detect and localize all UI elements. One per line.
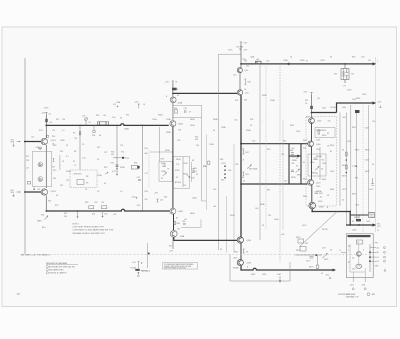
svg-text:+75: +75 bbox=[343, 86, 346, 88]
svg-text:0.1: 0.1 bbox=[62, 130, 65, 132]
svg-text:Q468: Q468 bbox=[247, 263, 251, 265]
svg-text:R15: R15 bbox=[60, 151, 63, 153]
svg-text:L51: L51 bbox=[317, 98, 320, 100]
svg-text:SEE PARTS LIST FOR SEMICO: SEE PARTS LIST FOR SEMICO bbox=[21, 253, 50, 256]
svg-text:R31: R31 bbox=[126, 115, 129, 117]
svg-text:R45: R45 bbox=[248, 82, 251, 84]
svg-text:C454: C454 bbox=[316, 140, 320, 142]
wire x173 top bbox=[172, 83, 174, 97]
wire x142.5 bbox=[142, 125, 144, 211]
svg-text:R34: R34 bbox=[111, 163, 114, 165]
svg-text:2: 2 bbox=[377, 61, 378, 63]
svg-text:R479: R479 bbox=[309, 267, 313, 269]
svg-text:R486: R486 bbox=[354, 217, 358, 219]
resistor R478 diagonal bbox=[322, 254, 328, 258]
svg-text:C30: C30 bbox=[112, 117, 115, 119]
svg-text:+SIG: +SIG bbox=[193, 168, 198, 170]
svg-text:150: 150 bbox=[268, 215, 271, 217]
svg-text:R464: R464 bbox=[303, 179, 307, 181]
svg-text:Q452: Q452 bbox=[317, 121, 321, 123]
svg-text:18: 18 bbox=[175, 82, 177, 84]
box outline bbox=[346, 234, 373, 278]
svg-text:R32: R32 bbox=[175, 89, 178, 91]
svg-text:C36: C36 bbox=[184, 108, 187, 110]
svg-text:J1: J1 bbox=[339, 250, 341, 252]
ground 2 bottom bus bbox=[102, 211, 104, 216]
svg-text:L24: L24 bbox=[101, 202, 104, 204]
svg-text:C67: C67 bbox=[284, 181, 287, 183]
wire input1 arrow bbox=[17, 141, 20, 143]
svg-text:R46: R46 bbox=[177, 223, 180, 225]
svg-text:R25: R25 bbox=[64, 213, 67, 215]
svg-text:C472: C472 bbox=[369, 189, 373, 191]
svg-text:C32: C32 bbox=[120, 145, 123, 147]
svg-text:316: 316 bbox=[244, 100, 247, 102]
svg-text:R457: R457 bbox=[303, 140, 307, 142]
transistor Q33 bbox=[170, 121, 176, 127]
svg-text:62: 62 bbox=[330, 57, 332, 59]
svg-text:C55: C55 bbox=[234, 120, 237, 122]
wire x311.5 between Q470 Q480 bbox=[311, 185, 313, 202]
svg-text:R490: R490 bbox=[365, 150, 369, 152]
svg-text:Q480: Q480 bbox=[319, 207, 323, 209]
resistor R36 bbox=[131, 165, 138, 169]
resistor R80 bbox=[79, 132, 81, 136]
circled numbers bbox=[46, 266, 48, 268]
svg-text:Q466: Q466 bbox=[247, 240, 251, 242]
ground right of box bbox=[384, 269, 386, 272]
thick wire y112.5 bbox=[312, 112, 337, 114]
wire input2 thick bbox=[24, 191, 42, 193]
svg-text:R36: R36 bbox=[174, 108, 177, 110]
svg-text:HIGH AMPLIFIER: HIGH AMPLIFIER bbox=[49, 268, 64, 271]
wire x234 bbox=[233, 144, 235, 253]
svg-text:R54: R54 bbox=[235, 100, 238, 102]
svg-text:620: 620 bbox=[244, 61, 247, 63]
svg-text:C7: C7 bbox=[74, 165, 76, 167]
box bottom enclosure bbox=[230, 254, 290, 281]
diode chain CR37 bbox=[224, 166, 226, 179]
wire from Q46 to Q466 bbox=[174, 237, 237, 240]
wire stub x345 bbox=[344, 64, 346, 69]
svg-text:47: 47 bbox=[189, 112, 191, 114]
svg-text:C469A: C469A bbox=[316, 190, 322, 193]
wire y255 bbox=[295, 254, 322, 256]
svg-text:820: 820 bbox=[92, 214, 95, 216]
potentiometer R461 bbox=[315, 167, 319, 170]
svg-text:-SIG: -SIG bbox=[362, 285, 366, 287]
svg-text:L40: L40 bbox=[213, 206, 216, 208]
wire x117 bbox=[116, 125, 118, 174]
svg-text:R471: R471 bbox=[319, 193, 323, 195]
svg-text:R453: R453 bbox=[322, 130, 326, 132]
wire x351 bbox=[350, 105, 352, 211]
svg-text:910: 910 bbox=[121, 152, 124, 154]
svg-text:R29: R29 bbox=[104, 167, 107, 169]
svg-text:R51: R51 bbox=[305, 100, 308, 102]
svg-text:316: 316 bbox=[303, 148, 306, 150]
svg-text:R469: R469 bbox=[303, 196, 307, 198]
svg-text:62: 62 bbox=[352, 221, 354, 223]
svg-text:+TRIG SIG: +TRIG SIG bbox=[73, 174, 83, 176]
svg-text:C13: C13 bbox=[31, 137, 34, 139]
svg-text:C26: C26 bbox=[94, 202, 97, 204]
svg-text:C51: C51 bbox=[306, 117, 309, 119]
svg-text:.001: .001 bbox=[104, 214, 108, 216]
svg-text:B1: B1 bbox=[377, 257, 379, 259]
svg-text:C49: C49 bbox=[213, 189, 216, 191]
resistor R30 on bus bbox=[98, 122, 109, 125]
svg-text:7A2: 7A2 bbox=[372, 293, 375, 296]
wire x80 bbox=[79, 125, 81, 170]
wire loop right x289 bbox=[288, 144, 290, 184]
svg-text:Q30A: Q30A bbox=[124, 128, 129, 131]
svg-text:DELAY: DELAY bbox=[131, 266, 138, 269]
svg-text:R478: R478 bbox=[324, 259, 328, 261]
svg-text:Q24 B: Q24 B bbox=[51, 191, 57, 193]
svg-text:C45 R45: C45 R45 bbox=[236, 47, 243, 49]
svg-text:R455: R455 bbox=[330, 145, 334, 147]
svg-text:ATTEN: ATTEN bbox=[175, 181, 181, 184]
svg-text:16: 16 bbox=[290, 57, 292, 59]
title bar dark text bbox=[348, 235, 371, 237]
svg-text:C17: C17 bbox=[26, 168, 29, 170]
transistor Q468 bbox=[237, 260, 243, 266]
svg-text:C38: C38 bbox=[235, 164, 238, 166]
wire x283 bbox=[282, 120, 284, 230]
junction arrow on bus bbox=[286, 62, 289, 65]
svg-text:R14: R14 bbox=[52, 136, 55, 138]
wire diagonal pointer bbox=[300, 211, 339, 247]
dual diode CR18 bbox=[38, 162, 43, 167]
wire x311.5 between Q458 Q470 bbox=[311, 147, 313, 180]
wire stub below bbox=[344, 80, 346, 84]
svg-text:J44: J44 bbox=[246, 66, 249, 68]
svg-text:820: 820 bbox=[355, 178, 358, 180]
svg-text:Q43B: Q43B bbox=[178, 211, 183, 213]
wire top bus bbox=[241, 63, 374, 65]
svg-text:Q1: Q1 bbox=[352, 258, 354, 260]
svg-text:C5: C5 bbox=[82, 144, 84, 146]
wire input2 arrow bbox=[17, 191, 20, 193]
wire bus y93.4 bbox=[173, 92, 237, 94]
dashed box delay pickoff bbox=[70, 170, 97, 188]
pin row 1 bbox=[370, 248, 376, 262]
svg-text:R57: R57 bbox=[334, 74, 337, 76]
svg-text:R63 GAIN: R63 GAIN bbox=[249, 168, 258, 171]
svg-text:165: 165 bbox=[368, 60, 371, 62]
svg-text:+: + bbox=[262, 121, 263, 123]
svg-text:.5-2: .5-2 bbox=[88, 122, 91, 124]
transistor Q466 bbox=[237, 237, 243, 243]
wire x218.5 lower bbox=[218, 163, 220, 250]
svg-text:C450: C450 bbox=[342, 117, 346, 119]
svg-text:750: 750 bbox=[74, 138, 77, 140]
svg-text:C452: C452 bbox=[347, 141, 351, 143]
svg-text:R468A: R468A bbox=[233, 267, 239, 270]
ground input1 bbox=[12, 144, 14, 147]
svg-text:4.7: 4.7 bbox=[66, 156, 69, 158]
svg-text:620: 620 bbox=[53, 178, 56, 180]
resistor R467 bbox=[243, 249, 245, 253]
svg-text:NOTE 1: NOTE 1 bbox=[73, 224, 80, 226]
svg-text:R489: R489 bbox=[356, 98, 360, 100]
nested box lines x201.6 bbox=[202, 118, 207, 201]
wire output top y210.5 bbox=[312, 209, 373, 225]
svg-text:R37: R37 bbox=[145, 148, 148, 150]
svg-text:68: 68 bbox=[99, 135, 101, 137]
svg-text:62: 62 bbox=[330, 151, 332, 153]
svg-text:Q458: Q458 bbox=[316, 144, 320, 146]
transistor Q480 bbox=[309, 202, 316, 209]
svg-text:R460A: R460A bbox=[316, 155, 322, 158]
inner box R460 network bbox=[308, 154, 326, 176]
svg-text:ADJ: ADJ bbox=[42, 226, 45, 229]
capacitor C15 bbox=[47, 135, 49, 137]
svg-text:C461: C461 bbox=[322, 163, 326, 165]
capacitor C36a bbox=[185, 110, 187, 113]
wire x159.4 bbox=[158, 127, 160, 161]
inner wires waveform box bbox=[350, 244, 365, 278]
svg-text:R9: R9 bbox=[86, 183, 88, 185]
capacitor C14 bbox=[38, 147, 42, 148]
svg-text:75: 75 bbox=[377, 230, 379, 232]
svg-text:R39: R39 bbox=[145, 191, 148, 193]
bracket wires loop left bbox=[242, 149, 244, 178]
svg-text:R64: R64 bbox=[246, 174, 249, 176]
resistor R479 bbox=[316, 265, 319, 269]
svg-text:GAIN: GAIN bbox=[37, 220, 42, 223]
wire input1 thick bbox=[24, 141, 42, 143]
svg-text:R476: R476 bbox=[296, 250, 300, 252]
svg-text:62: 62 bbox=[316, 173, 318, 175]
wire x260 bbox=[259, 64, 261, 240]
svg-text:R467: R467 bbox=[234, 252, 238, 254]
svg-text:5-25: 5-25 bbox=[112, 171, 116, 173]
transistor Q14 bbox=[41, 138, 47, 144]
svg-text:R27: R27 bbox=[97, 147, 100, 149]
pin circles bottom bbox=[352, 288, 354, 290]
resistor R19 bbox=[53, 159, 55, 162]
svg-text:C482: C482 bbox=[262, 274, 266, 276]
inductor L28 below bus bbox=[93, 125, 95, 130]
arrowhead bottom bus bbox=[333, 269, 336, 272]
svg-text:R30: R30 bbox=[96, 115, 99, 117]
svg-text:910: 910 bbox=[196, 145, 199, 147]
svg-text:R452: R452 bbox=[355, 150, 359, 152]
wire x147 stub bbox=[147, 243, 149, 268]
svg-text:J451: J451 bbox=[365, 128, 369, 130]
svg-text:C18: C18 bbox=[26, 160, 29, 162]
resistor R56 on bus bbox=[256, 61, 262, 64]
svg-text:56: 56 bbox=[330, 250, 332, 252]
emitter coupling box bbox=[32, 152, 52, 187]
svg-text:R12: R12 bbox=[56, 119, 59, 121]
resistor R460 bbox=[314, 158, 318, 160]
svg-text:R475: R475 bbox=[296, 237, 300, 239]
svg-text:GND: GND bbox=[375, 266, 380, 268]
svg-text:C47: C47 bbox=[177, 229, 180, 231]
svg-text:CR37: CR37 bbox=[221, 163, 226, 165]
svg-text:120: 120 bbox=[372, 121, 375, 123]
wire bottom bus y270 bbox=[241, 266, 334, 270]
junction y156 bbox=[297, 155, 299, 157]
potentiometer R63 bbox=[247, 165, 252, 168]
svg-text:R5: R5 bbox=[73, 133, 75, 135]
svg-text:825: 825 bbox=[305, 243, 308, 245]
ground bottom bbox=[279, 276, 281, 282]
svg-text:R60: R60 bbox=[267, 149, 270, 151]
svg-text:62: 62 bbox=[327, 133, 329, 135]
svg-text:R36: R36 bbox=[134, 163, 137, 165]
resistor R472 bbox=[345, 152, 347, 156]
dual diode CR19 bbox=[38, 177, 43, 182]
svg-text:62: 62 bbox=[320, 197, 322, 199]
svg-text:C41: C41 bbox=[183, 185, 186, 187]
resistor R62 bbox=[243, 150, 245, 154]
wire stub y156 bbox=[289, 155, 301, 157]
svg-text:L30: L30 bbox=[103, 115, 106, 117]
svg-text:910: 910 bbox=[145, 199, 148, 201]
nested box lines x206.5 bbox=[206, 135, 208, 211]
resistor R35 bbox=[208, 161, 210, 165]
extra speckle labels bbox=[55, 94, 366, 231]
svg-text:Q33B: Q33B bbox=[178, 124, 183, 126]
svg-text:C39: C39 bbox=[137, 205, 140, 207]
svg-text:716: 716 bbox=[176, 164, 179, 166]
svg-text:COMPONENT NO. AND WAVEFORMS SE: COMPONENT NO. AND WAVEFORMS SEE TYPE bbox=[73, 229, 115, 232]
svg-text:C61: C61 bbox=[281, 154, 284, 156]
svg-text:C477: C477 bbox=[322, 248, 326, 250]
svg-text:C37: C37 bbox=[145, 173, 148, 175]
svg-text:R19: R19 bbox=[52, 167, 55, 169]
wire loop bottom y184 bbox=[241, 183, 308, 185]
svg-text:C8: C8 bbox=[97, 191, 99, 193]
wire emitter network right bbox=[59, 155, 61, 170]
svg-text:Q14 B: Q14 B bbox=[51, 140, 57, 142]
power at x138.8 top bbox=[138, 104, 140, 106]
resistor R38 bbox=[163, 165, 167, 167]
power +75V bbox=[240, 42, 242, 44]
svg-text:33: 33 bbox=[250, 125, 252, 127]
svg-text:R24: R24 bbox=[41, 215, 44, 217]
wire Q46 emitter down bbox=[172, 237, 174, 249]
wire x173 long bbox=[172, 127, 174, 209]
svg-text:L8: L8 bbox=[85, 189, 87, 191]
svg-text:R460: R460 bbox=[310, 162, 314, 164]
svg-text:R6: R6 bbox=[74, 151, 76, 153]
wire x363 dotted bbox=[362, 105, 364, 232]
svg-text:L482: L482 bbox=[277, 274, 281, 276]
svg-text:R17: R17 bbox=[26, 156, 29, 158]
svg-text:C48: C48 bbox=[228, 170, 231, 172]
svg-text:C491: C491 bbox=[365, 160, 369, 162]
resistor R18 bbox=[27, 182, 30, 185]
box Q34-Q33 interstage bbox=[173, 105, 202, 117]
svg-text:L44: L44 bbox=[256, 59, 259, 61]
pin symbols bbox=[384, 247, 386, 263]
resistor R473 bbox=[345, 165, 347, 169]
capacitor C475 bbox=[310, 257, 314, 259]
svg-text:R68: R68 bbox=[297, 175, 300, 177]
wire emitter Q14 down bbox=[45, 145, 47, 188]
svg-text:R42: R42 bbox=[164, 197, 167, 199]
svg-text:C59: C59 bbox=[361, 57, 364, 59]
svg-text:62: 62 bbox=[104, 183, 106, 185]
scattered value labels bbox=[26, 57, 379, 276]
svg-text:C66: C66 bbox=[291, 163, 294, 165]
resistor R45 bbox=[244, 79, 246, 85]
svg-text:33: 33 bbox=[177, 95, 179, 97]
svg-text:L31: L31 bbox=[113, 104, 116, 106]
RC parallel R57 C57 bbox=[341, 69, 349, 80]
transistor Q470 bbox=[308, 179, 314, 185]
svg-text:620: 620 bbox=[195, 139, 198, 141]
wire feedback top bbox=[219, 54, 242, 163]
svg-text:R47: R47 bbox=[169, 246, 172, 248]
svg-text:C46: C46 bbox=[182, 221, 185, 223]
transistor Q452 bbox=[309, 118, 315, 124]
svg-text:62: 62 bbox=[161, 178, 163, 180]
svg-text:R23: R23 bbox=[55, 205, 58, 207]
svg-text:R477A: R477A bbox=[322, 228, 328, 231]
svg-text:152: 152 bbox=[328, 121, 331, 123]
svg-text:ATTENUATORS VERTICAL SW: ATTENUATORS VERTICAL SW bbox=[49, 265, 75, 268]
svg-text:C459: C459 bbox=[316, 149, 320, 151]
svg-text:Q54: Q54 bbox=[245, 93, 248, 95]
ground x117 bbox=[116, 174, 118, 176]
svg-text:DCPL: DCPL bbox=[347, 90, 352, 92]
box pickoff inner bbox=[77, 180, 84, 185]
wire x311.5 top bbox=[311, 95, 313, 118]
resistor R36a bbox=[175, 110, 178, 113]
box left network bbox=[159, 161, 172, 181]
transistor Q490 bbox=[356, 251, 361, 256]
note text block bbox=[73, 224, 115, 235]
box R476 bbox=[300, 247, 306, 252]
svg-text:C9: C9 bbox=[120, 191, 122, 193]
resistor R64 bbox=[243, 172, 245, 176]
thin line y152 bbox=[150, 151, 173, 153]
wire x346.3 resistor chain bbox=[345, 113, 347, 226]
wire x191.6 bbox=[191, 162, 193, 182]
svg-text:L14: L14 bbox=[52, 130, 55, 132]
svg-text:R7: R7 bbox=[73, 161, 75, 163]
svg-text:R66: R66 bbox=[290, 150, 293, 152]
svg-text:62: 62 bbox=[321, 273, 323, 275]
potentiometer R68 bbox=[296, 170, 300, 173]
svg-text:62: 62 bbox=[342, 200, 344, 202]
svg-text:Q44: Q44 bbox=[245, 70, 248, 72]
svg-text:C465: C465 bbox=[316, 186, 320, 188]
small parts above bottom bus right bbox=[157, 199, 159, 202]
box TRIG bbox=[356, 240, 363, 244]
svg-text:DS1: DS1 bbox=[352, 269, 356, 271]
svg-text:C469: C469 bbox=[318, 201, 322, 203]
wire x317.5 bbox=[317, 255, 319, 265]
svg-text:A2: A2 bbox=[377, 251, 379, 254]
svg-text:R463: R463 bbox=[322, 179, 326, 181]
svg-text:R58: R58 bbox=[250, 119, 253, 121]
svg-text:R62: R62 bbox=[246, 152, 249, 154]
svg-text:DISPLAY SC AMPLIF: DISPLAY SC AMPLIF bbox=[49, 272, 67, 275]
wire collector Q14 up to bus bbox=[45, 115, 47, 139]
svg-text:3: 3 bbox=[363, 250, 364, 252]
dashed box around output transistors bbox=[306, 117, 337, 207]
wire emitter Q24 to bottom bus bbox=[45, 196, 47, 212]
svg-text:L41: L41 bbox=[184, 219, 187, 221]
svg-text:C453: C453 bbox=[296, 131, 300, 133]
